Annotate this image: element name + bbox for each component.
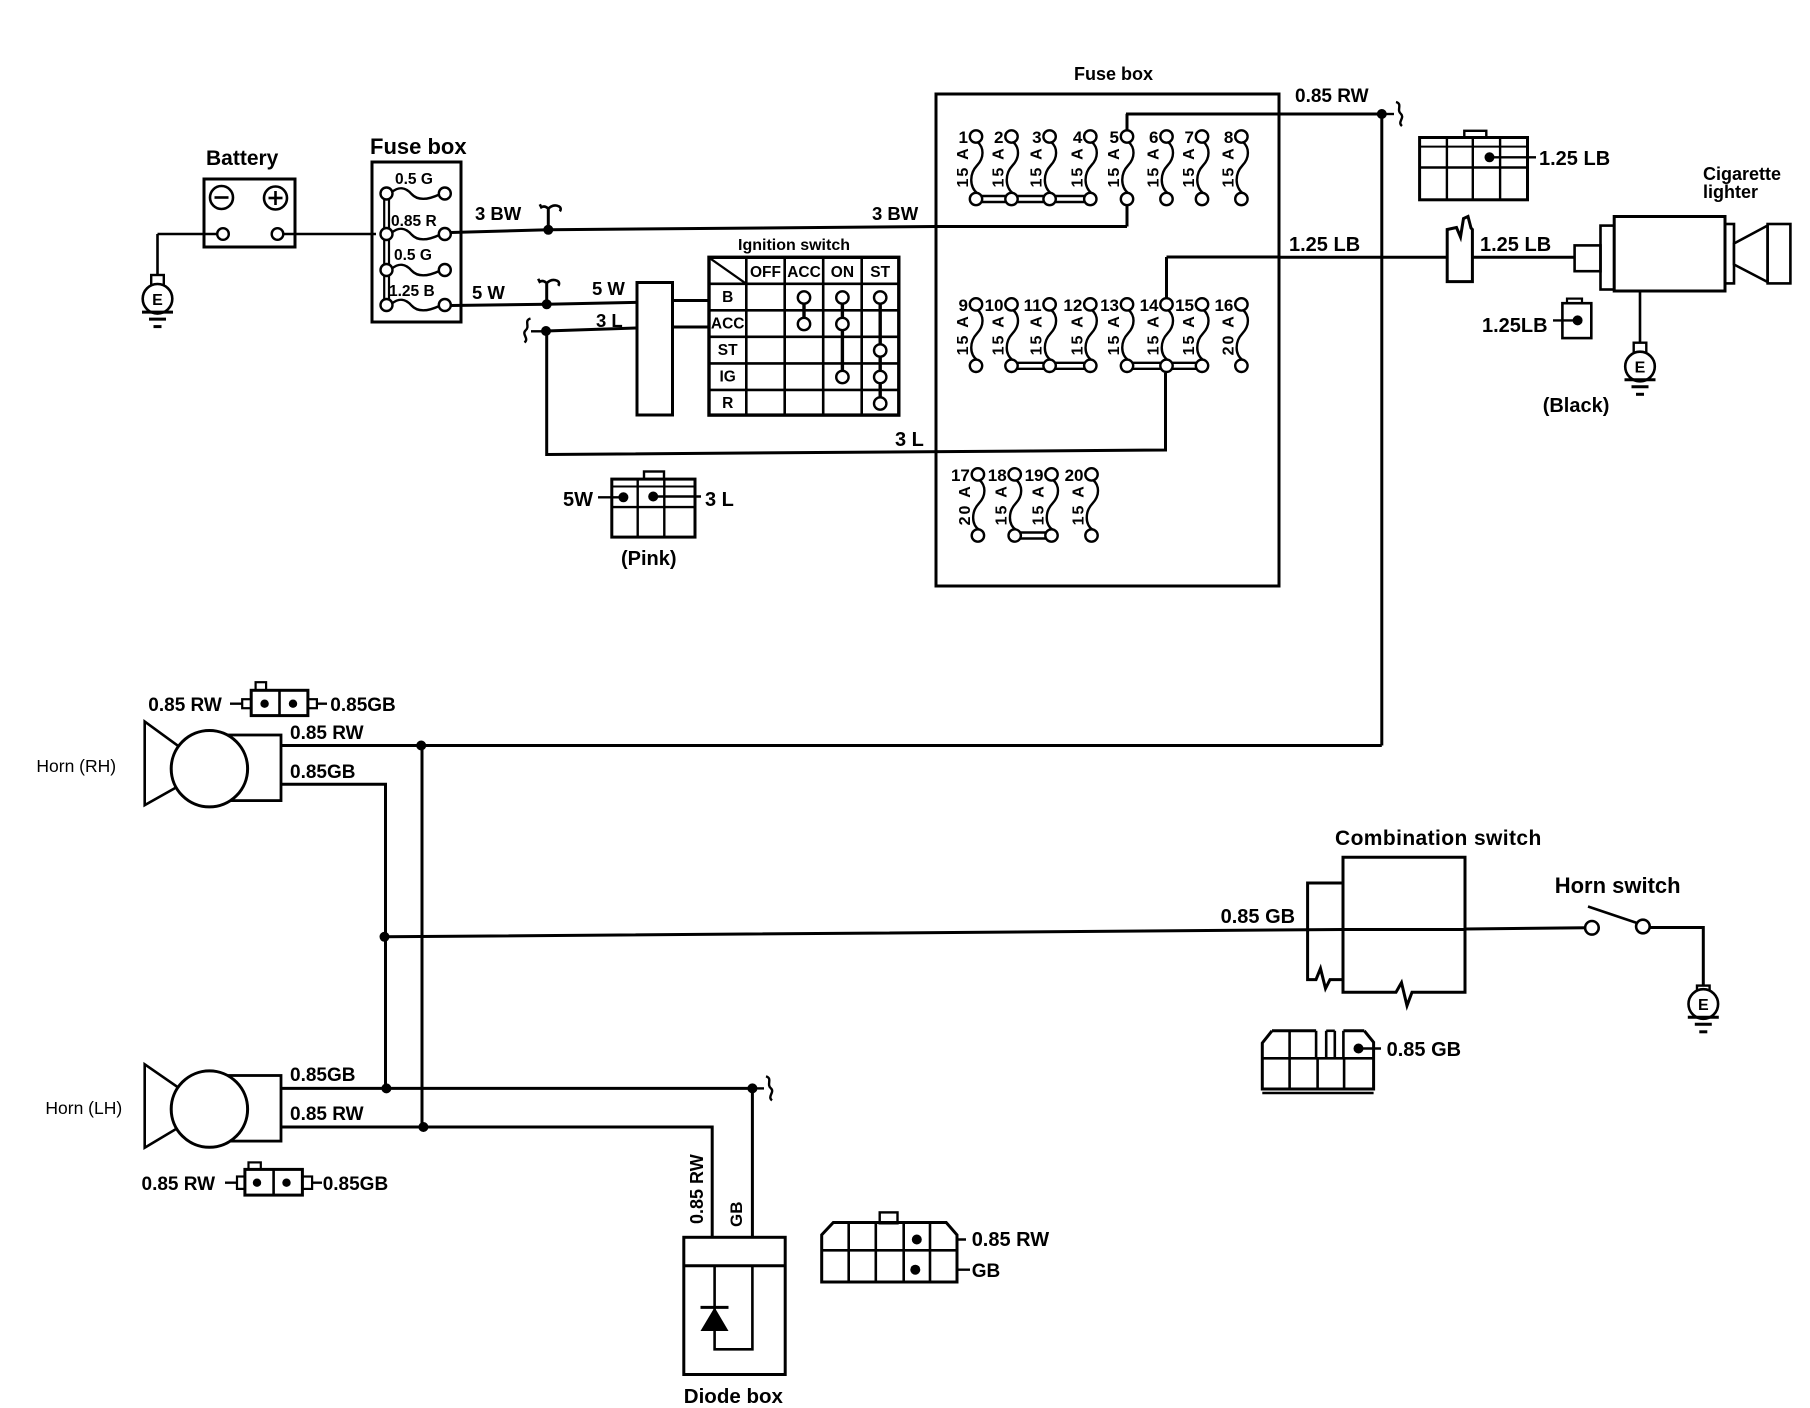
svg-text:0.85GB: 0.85GB	[330, 695, 395, 716]
svg-text:1.25 LB: 1.25 LB	[1539, 148, 1610, 170]
svg-text:15 A: 15 A	[1029, 146, 1046, 187]
svg-text:1.25 LB: 1.25 LB	[1480, 234, 1551, 256]
svg-text:0.85 RW: 0.85 RW	[148, 695, 222, 716]
svg-text:Horn (LH): Horn (LH)	[45, 1098, 122, 1118]
svg-text:0.85 GB: 0.85 GB	[1221, 906, 1295, 928]
svg-text:15 A: 15 A	[1146, 146, 1163, 187]
svg-text:15 A: 15 A	[1181, 146, 1198, 187]
svg-text:0.5 G: 0.5 G	[395, 171, 433, 188]
svg-text:0.85GB: 0.85GB	[290, 762, 355, 783]
svg-text:3 L: 3 L	[895, 429, 924, 451]
svg-text:Horn (RH): Horn (RH)	[36, 756, 116, 776]
svg-text:B: B	[722, 289, 733, 306]
svg-text:15 A: 15 A	[1069, 146, 1086, 187]
svg-text:0.5 G: 0.5 G	[394, 247, 432, 264]
svg-text:0.85 RW: 0.85 RW	[1295, 86, 1369, 107]
svg-text:15 A: 15 A	[991, 146, 1008, 187]
svg-text:Fuse box: Fuse box	[370, 134, 467, 159]
svg-text:2: 2	[994, 128, 1003, 147]
svg-text:14: 14	[1140, 296, 1159, 315]
svg-text:IG: IG	[720, 369, 736, 386]
svg-text:Combination switch: Combination switch	[1335, 827, 1542, 850]
svg-text:ACC: ACC	[711, 316, 745, 333]
svg-text:7: 7	[1185, 128, 1194, 147]
svg-text:0.85 RW: 0.85 RW	[142, 1174, 216, 1195]
svg-text:ST: ST	[870, 264, 890, 281]
svg-text:15 A: 15 A	[955, 314, 972, 355]
svg-text:15 A: 15 A	[1029, 314, 1046, 355]
svg-text:4: 4	[1073, 128, 1083, 147]
svg-text:5: 5	[1110, 128, 1119, 147]
svg-text:0.85 GB: 0.85 GB	[1387, 1039, 1461, 1061]
svg-text:16: 16	[1214, 296, 1233, 315]
svg-text:Ignition switch: Ignition switch	[738, 237, 850, 254]
svg-text:15 A: 15 A	[1106, 314, 1123, 355]
svg-text:3 L: 3 L	[705, 489, 734, 511]
svg-text:15 A: 15 A	[1031, 484, 1048, 525]
svg-text:3 L: 3 L	[596, 310, 623, 331]
svg-text:20 A: 20 A	[957, 484, 974, 525]
svg-text:11: 11	[1024, 296, 1042, 315]
svg-text:15 A: 15 A	[1181, 314, 1198, 355]
svg-text:Cigarette: Cigarette	[1703, 164, 1781, 184]
svg-text:(Pink): (Pink)	[621, 548, 677, 570]
svg-text:1.25 B: 1.25 B	[389, 283, 435, 300]
svg-text:5 W: 5 W	[472, 282, 505, 303]
svg-text:19: 19	[1025, 466, 1044, 485]
svg-text:13: 13	[1100, 296, 1119, 315]
svg-text:1: 1	[959, 128, 968, 147]
svg-text:R: R	[722, 395, 733, 412]
svg-text:15 A: 15 A	[994, 484, 1011, 525]
svg-text:Fuse box: Fuse box	[1074, 64, 1153, 84]
svg-text:0.85GB: 0.85GB	[323, 1174, 388, 1195]
svg-text:9: 9	[959, 296, 968, 315]
svg-text:1.25 LB: 1.25 LB	[1289, 234, 1360, 256]
svg-text:12: 12	[1063, 296, 1082, 315]
svg-text:(Black): (Black)	[1543, 395, 1610, 417]
svg-text:10: 10	[985, 296, 1004, 315]
svg-text:3 BW: 3 BW	[872, 203, 919, 224]
svg-text:15 A: 15 A	[1146, 314, 1163, 355]
svg-text:15 A: 15 A	[1071, 484, 1088, 525]
svg-text:15 A: 15 A	[991, 314, 1008, 355]
svg-text:18: 18	[988, 466, 1007, 485]
svg-text:3: 3	[1032, 128, 1041, 147]
svg-text:0.85GB: 0.85GB	[290, 1065, 355, 1086]
svg-text:8: 8	[1224, 128, 1233, 147]
svg-text:E: E	[1635, 360, 1646, 377]
svg-text:1.25LB: 1.25LB	[1482, 315, 1548, 337]
svg-text:ON: ON	[831, 264, 854, 281]
svg-text:ST: ST	[718, 342, 738, 359]
svg-text:E: E	[152, 292, 163, 309]
svg-text:E: E	[1698, 997, 1709, 1014]
svg-text:15 A: 15 A	[955, 146, 972, 187]
svg-text:Diode box: Diode box	[684, 1385, 784, 1408]
svg-text:5 W: 5 W	[592, 278, 625, 299]
svg-text:0.85 RW: 0.85 RW	[290, 1104, 364, 1125]
svg-text:20 A: 20 A	[1220, 314, 1237, 355]
svg-text:GB: GB	[727, 1202, 746, 1228]
svg-text:0.85 RW: 0.85 RW	[972, 1229, 1050, 1251]
svg-text:15 A: 15 A	[1220, 146, 1237, 187]
svg-text:Horn switch: Horn switch	[1555, 873, 1681, 898]
svg-text:6: 6	[1149, 128, 1158, 147]
svg-text:3 BW: 3 BW	[475, 203, 522, 224]
svg-text:GB: GB	[972, 1261, 1001, 1282]
svg-text:15: 15	[1175, 296, 1194, 315]
svg-text:20: 20	[1065, 466, 1084, 485]
svg-text:OFF: OFF	[750, 264, 781, 281]
svg-text:15 A: 15 A	[1106, 146, 1123, 187]
svg-text:5W: 5W	[563, 489, 593, 511]
svg-text:0.85 RW: 0.85 RW	[687, 1154, 707, 1224]
svg-text:lighter: lighter	[1703, 182, 1758, 202]
svg-text:0.85 RW: 0.85 RW	[290, 723, 364, 744]
svg-text:Battery: Battery	[206, 147, 279, 170]
svg-text:ACC: ACC	[787, 264, 821, 281]
svg-text:15 A: 15 A	[1069, 314, 1086, 355]
svg-text:17: 17	[951, 466, 970, 485]
svg-text:0.85 R: 0.85 R	[391, 213, 437, 230]
